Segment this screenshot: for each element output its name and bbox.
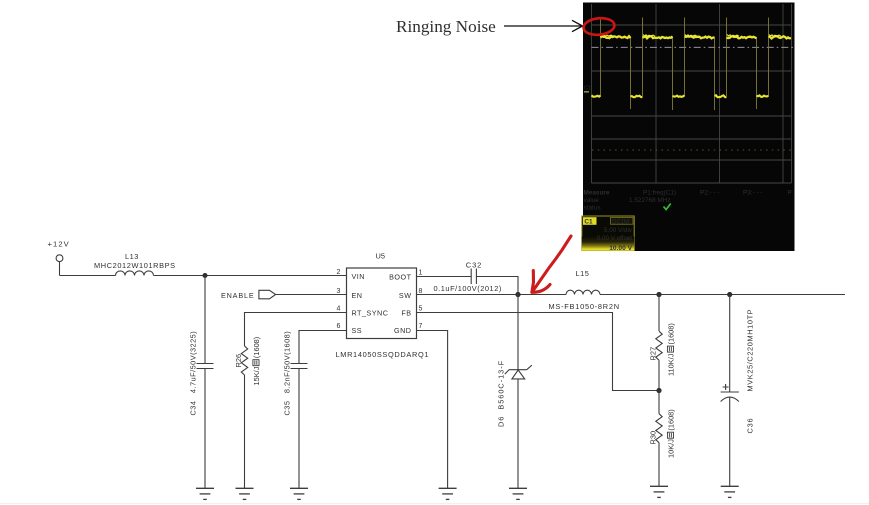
svg-text:LMR14050SSQDDARQ1: LMR14050SSQDDARQ1 — [336, 350, 430, 359]
junction C34 tap — [203, 273, 208, 278]
svg-text:1.522768 MHz: 1.522768 MHz — [629, 197, 671, 204]
svg-text:10K/J: 10K/J — [666, 439, 675, 458]
wire: +12V terminal drop — [59, 262, 61, 276]
wire: R26 bottom — [244, 375, 246, 488]
svg-text:C1: C1 — [584, 219, 593, 226]
wire: +12V rail to L13 — [60, 275, 116, 277]
svg-text:P2:- - -: P2:- - - — [700, 190, 720, 197]
inductor L13 — [116, 271, 154, 276]
wire: L13 to VIN — [154, 275, 347, 277]
svg-text:C1: C1 — [584, 86, 591, 92]
svg-text:L15: L15 — [576, 269, 590, 278]
svg-text:status: status — [584, 205, 601, 212]
capacitor C32 — [471, 269, 476, 285]
svg-text:D6 B560C-13-F: D6 B560C-13-F — [496, 360, 505, 427]
wire: FB pin 5 to divider — [417, 313, 660, 391]
svg-text:3: 3 — [337, 288, 341, 295]
channel C1 waveform: high level noisy band — [601, 36, 792, 38]
svg-text:1: 1 — [419, 270, 423, 277]
svg-text:BOOT: BOOT — [389, 273, 411, 282]
svg-text:SS: SS — [352, 326, 363, 335]
op-amp U5 body — [347, 268, 417, 339]
svg-text:EN: EN — [352, 291, 363, 300]
wire: C36 top — [729, 295, 731, 393]
wire: BOOT pin 1 to C32 — [417, 276, 472, 278]
svg-text:R26: R26 — [234, 354, 243, 368]
wire: C34 top — [204, 276, 206, 364]
svg-text:4: 4 — [337, 306, 341, 313]
svg-text:(1608): (1608) — [252, 337, 261, 358]
junction R27 tap — [656, 292, 661, 297]
ground (C34) — [196, 488, 214, 499]
svg-text:7: 7 — [419, 323, 423, 330]
svg-text:0.1uF/100V(2012): 0.1uF/100V(2012) — [434, 284, 502, 293]
ground (U5 GND) — [439, 488, 457, 499]
wire: R27 top — [658, 295, 660, 332]
svg-text:0.00 V offset: 0.00 V offset — [597, 235, 632, 242]
wire: L15 to output — [600, 294, 845, 296]
svg-text:Ringing Noise: Ringing Noise — [396, 17, 496, 36]
C1 trace label on screen — [584, 86, 591, 93]
ground (D6) — [509, 488, 527, 499]
value 15K/J(1608) — [252, 337, 261, 386]
svg-text:MHC2012W101RBPS: MHC2012W101RBPS — [94, 261, 176, 270]
svg-text:RT_SYNC: RT_SYNC — [352, 309, 389, 318]
svg-text:L13: L13 — [125, 252, 139, 261]
junction SW node — [515, 292, 520, 297]
page bottom edge artifact — [0, 503, 869, 504]
svg-text:P3:- - -: P3:- - - — [743, 190, 763, 197]
svg-text:MVK25/C220MH10TP: MVK25/C220MH10TP — [746, 309, 755, 392]
svg-text:2: 2 — [337, 269, 341, 276]
capacitor C34 — [197, 364, 214, 369]
svg-text:110K/J: 110K/J — [666, 353, 675, 376]
wire: RT_SYNC pin 4 to R26 — [245, 313, 347, 347]
wire: C34 bottom — [204, 369, 206, 489]
svg-text:GND: GND — [394, 326, 411, 335]
wire: D6 bottom — [517, 379, 519, 488]
junction FB divider node — [656, 388, 661, 393]
svg-text:VIN: VIN — [352, 272, 365, 281]
wire: R30 bottom — [658, 443, 660, 486]
value 10K/J(1608) — [666, 409, 675, 458]
wire: R30 top — [658, 391, 660, 414]
wire: ENABLE to EN pin 3 — [276, 294, 347, 296]
ground (R30) — [650, 486, 668, 497]
ground (R26) — [236, 488, 254, 499]
wire: C32 to SW node — [476, 277, 518, 295]
svg-text:R30: R30 — [649, 431, 658, 445]
dotted reference trace row — [592, 149, 791, 151]
svg-text:C36: C36 — [746, 418, 755, 434]
resistor R30 — [656, 414, 662, 443]
annotation: callout arrow to scope — [504, 20, 583, 31]
resistor R26 — [241, 346, 247, 375]
svg-text:15K/J: 15K/J — [252, 366, 261, 385]
wire: SS pin 6 to C35 — [299, 331, 347, 364]
svg-text:DC1M: DC1M — [612, 219, 629, 225]
wire: C36 bottom — [729, 398, 731, 487]
svg-text:SW: SW — [399, 291, 412, 300]
svg-text:10.00 V: 10.00 V — [609, 245, 632, 252]
signal flag ENABLE — [259, 290, 276, 299]
C1 channel info box — [582, 216, 634, 252]
svg-text:FB: FB — [401, 309, 411, 318]
svg-text:Measure: Measure — [584, 190, 610, 197]
svg-text:value: value — [584, 197, 600, 204]
wire: C35 bottom — [298, 369, 300, 489]
svg-text:P1:freq(C1): P1:freq(C1) — [643, 190, 676, 197]
wire: R27 bottom to FB node — [658, 360, 660, 390]
svg-text:C34 4.7uF/50V(3225): C34 4.7uF/50V(3225) — [188, 331, 197, 416]
ground (C36) — [721, 486, 739, 497]
capacitor C36 (polarized) — [721, 392, 739, 402]
oscilloscope screenshot — [582, 3, 795, 253]
inductor L15 — [566, 290, 600, 294]
wire: GND pin 7 — [417, 331, 448, 489]
ringing burst highlights at start of each high segment — [601, 35, 781, 37]
svg-text:ENABLE: ENABLE — [221, 291, 254, 300]
svg-text:C35 8.2nF/50V(1608): C35 8.2nF/50V(1608) — [282, 331, 291, 416]
diode D6 (schottky) — [505, 365, 532, 379]
polarity + mark — [723, 384, 729, 390]
svg-text:(1608): (1608) — [666, 409, 675, 430]
svg-text:P: P — [788, 190, 792, 197]
svg-text:C32: C32 — [466, 260, 482, 269]
capacitor C35 — [291, 364, 308, 369]
trigger level dash-dot line — [592, 46, 794, 48]
channel C1 waveform: low level noisy band — [592, 95, 769, 97]
svg-text:R27: R27 — [649, 347, 658, 361]
junction C36 tap — [727, 292, 732, 297]
ground (C35) — [290, 488, 308, 499]
graticule — [592, 4, 792, 183]
wire: D6 top — [517, 295, 519, 370]
svg-text:MS-FB1050-8R2N: MS-FB1050-8R2N — [549, 302, 620, 311]
channel C1 waveform: edges — [601, 18, 769, 111]
measure readout row — [584, 190, 792, 212]
svg-text:U5: U5 — [376, 252, 385, 261]
svg-text:(1608): (1608) — [666, 323, 675, 344]
svg-text:5: 5 — [419, 306, 423, 313]
value 110K/J(1608) — [666, 323, 675, 376]
resistor R27 — [656, 331, 662, 360]
svg-text:6: 6 — [337, 323, 341, 330]
node +12V terminal — [56, 255, 63, 262]
svg-text:+12V: +12V — [48, 240, 70, 249]
annotation: red arrow from scope to SW node — [532, 236, 571, 292]
annotation: red ellipse around ringing spike — [583, 17, 616, 37]
svg-text:5.00 V/div: 5.00 V/div — [604, 227, 633, 234]
wire: SW rail — [417, 294, 567, 296]
